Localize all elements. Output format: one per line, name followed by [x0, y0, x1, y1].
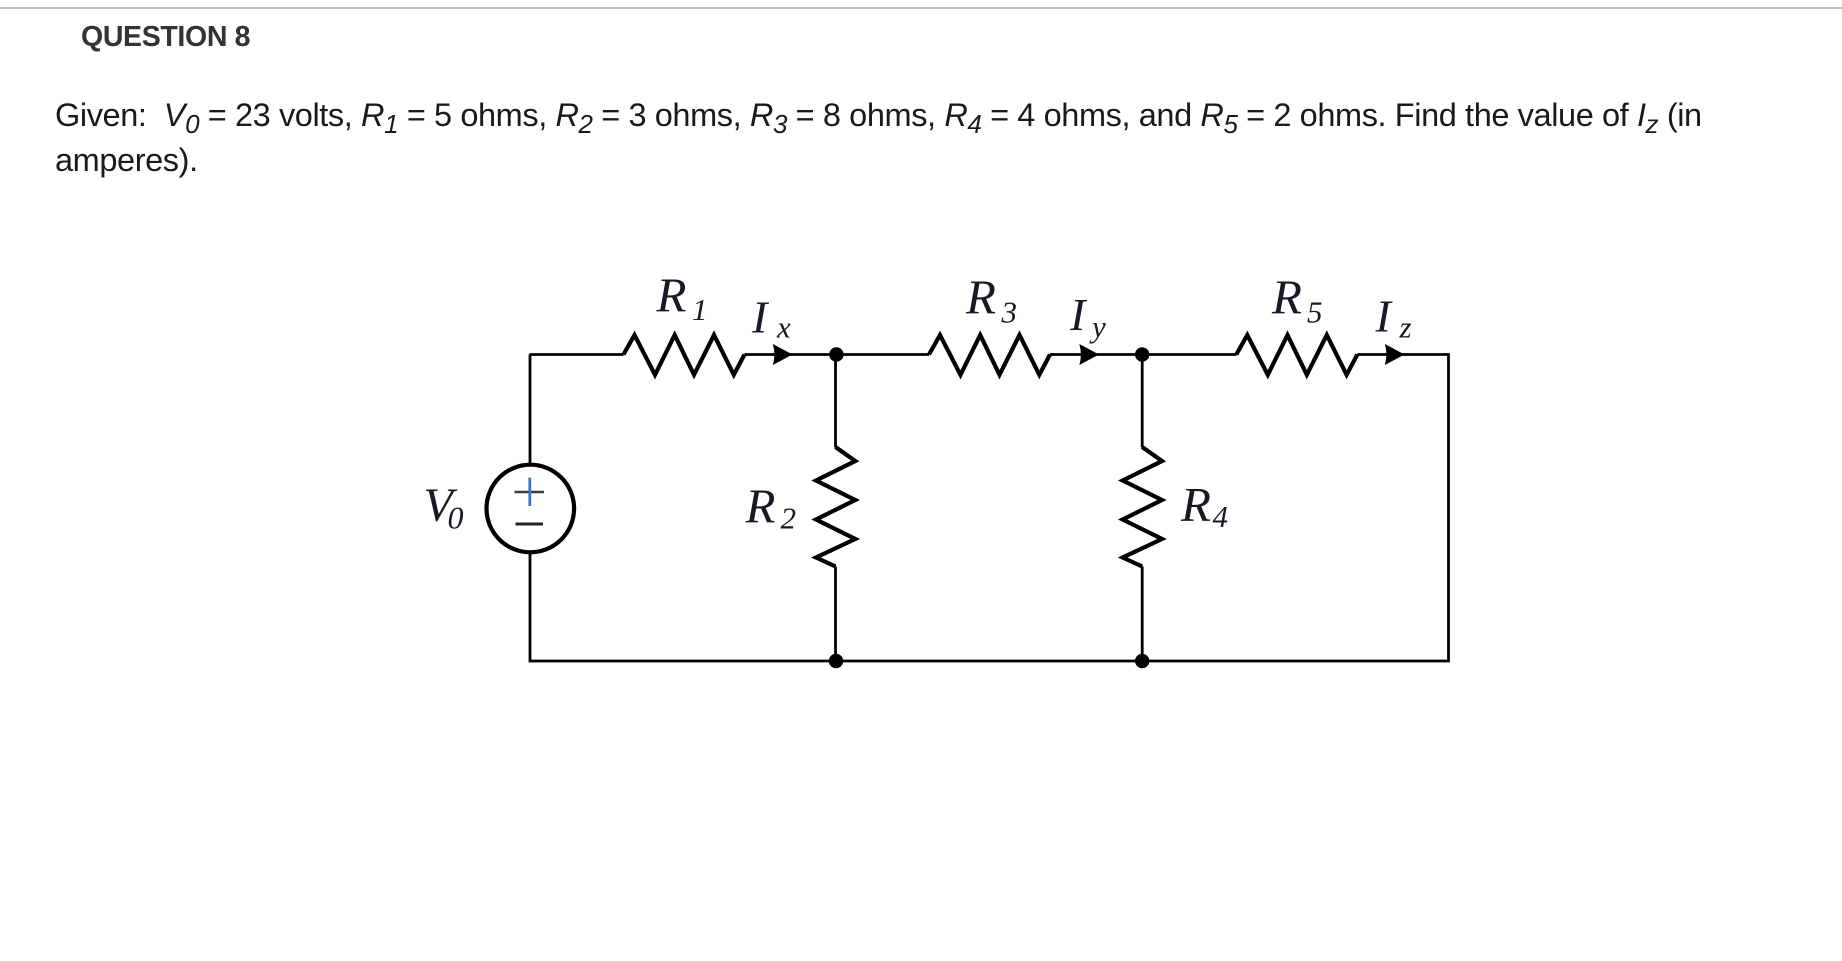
- wire top rail between R3 and R5: [1050, 353, 1236, 356]
- wire R4 top lead: [1141, 355, 1144, 448]
- arrow Ix: [773, 344, 793, 365]
- svg-text:I: I: [1375, 291, 1394, 342]
- resistor R3 zigzag: [929, 335, 1050, 375]
- svg-text:R: R: [1271, 270, 1302, 325]
- wire left rail upper: [529, 355, 532, 465]
- svg-text:R: R: [965, 270, 996, 325]
- svg-text:3: 3: [1001, 295, 1018, 330]
- node dot top A: [829, 347, 843, 361]
- resistor R4 zigzag: [1123, 447, 1162, 567]
- top divider line: [0, 7, 1842, 9]
- arrow Iy: [1079, 344, 1099, 365]
- node dot top B: [1135, 347, 1149, 361]
- wire top rail right segment: [1357, 353, 1448, 356]
- svg-text:1: 1: [692, 292, 708, 327]
- node dot bottom A: [829, 654, 843, 668]
- wire R2 bottom lead: [834, 567, 837, 662]
- svg-text:y: y: [1089, 309, 1106, 344]
- wire left rail lower: [529, 553, 532, 663]
- wire R4 bottom lead: [1141, 567, 1144, 662]
- svg-text:5: 5: [1307, 295, 1323, 330]
- wire bottom rail: [530, 660, 1450, 663]
- wire R2 top lead: [834, 355, 837, 448]
- wire top rail between R1 and R3: [745, 353, 930, 356]
- node dot bottom B: [1135, 654, 1149, 668]
- svg-text:R: R: [745, 479, 776, 534]
- problem text line 2: [55, 142, 198, 179]
- problem text line 1: [55, 97, 1702, 134]
- wire top rail left segment: [530, 353, 624, 356]
- plus sign horizontal: [515, 491, 545, 494]
- arrow Iz: [1385, 344, 1405, 365]
- svg-text:R: R: [656, 268, 687, 323]
- svg-text:x: x: [776, 310, 791, 345]
- voltage source V0 circle: [487, 465, 575, 553]
- svg-text:I: I: [751, 292, 770, 343]
- svg-text:4: 4: [1213, 499, 1229, 534]
- svg-text:R: R: [1180, 477, 1211, 532]
- heading QUESTION 8: [81, 21, 250, 54]
- resistor R2 zigzag: [816, 447, 855, 567]
- resistor R1 zigzag: [624, 335, 745, 375]
- wire right rail: [1447, 353, 1450, 661]
- svg-text:I: I: [1069, 289, 1088, 340]
- resistor R5 zigzag: [1236, 335, 1357, 375]
- minus sign: [516, 523, 544, 526]
- plus sign vertical: [528, 478, 531, 506]
- svg-text:z: z: [1399, 310, 1412, 345]
- svg-text:0: 0: [448, 500, 464, 536]
- svg-text:2: 2: [781, 501, 797, 536]
